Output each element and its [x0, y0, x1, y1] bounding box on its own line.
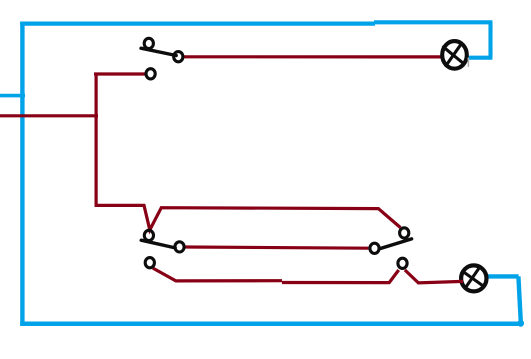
wire: red live stub at left edge — [0, 114, 98, 117]
switch S3 lever — [379, 239, 411, 249]
switch S3 terminal left — [370, 243, 379, 253]
wire: blue left vertical bus — [20, 22, 24, 326]
wire: blue bottom horizontal return — [20, 322, 520, 327]
wire: blue right vertical drop from lamp L2 — [518, 276, 520, 322]
wire: red from switch S3 to lamp L2 — [405, 270, 463, 283]
switch S3 terminal top — [400, 228, 409, 238]
lamp L1 cross stroke 1 — [446, 44, 461, 66]
wire: blue top horizontal (left part) — [20, 21, 375, 25]
lamp L1 cross stroke 2 — [443, 47, 464, 64]
wire: red traveller lower, S2 bottom terminal to mid-span — [153, 268, 282, 281]
switch S2 lever — [141, 240, 175, 248]
lamp L2 — [461, 265, 486, 291]
switch S1 terminal top — [144, 38, 153, 48]
artifact: gray tick below lamp L1 — [467, 58, 469, 67]
switch S1 lever — [141, 48, 176, 55]
wire: red vertical feed — [94, 73, 97, 207]
switch S3 (two-way switch, lower-right) — [370, 228, 412, 269]
lamp L1 body circle — [442, 41, 467, 69]
switch S1 (two-way switch, top) — [141, 38, 183, 79]
wire: blue right vertical drop to lamp L1 — [488, 22, 492, 58]
switch S2 terminal common top — [144, 230, 153, 240]
wire: blue neutral stub at left edge — [0, 94, 25, 98]
switch S3 terminal bottom — [398, 258, 407, 268]
wire: red from switch S1 terminal to lamp L1 — [184, 55, 441, 58]
lamp L1 — [442, 41, 467, 69]
switch S2 terminal bottom — [145, 258, 154, 268]
lamp L2 cross stroke 2 — [463, 272, 484, 287]
wire: blue top horizontal (right part) — [374, 20, 492, 24]
switch S1 terminal common — [146, 69, 155, 79]
switch S1 terminal right — [174, 52, 183, 62]
lamp L2 cross stroke 1 — [465, 267, 480, 288]
wire: red traveller lower, mid-span to S3 bottom terminal — [282, 270, 399, 283]
lamp L2 body circle — [461, 265, 486, 291]
wire: red traveller between S2 and S3 — [185, 247, 368, 248]
switch S2 (two-way switch, lower-left) — [141, 230, 184, 268]
switch S2 terminal right — [175, 242, 184, 252]
wire: red horizontal to switch S1 common — [94, 72, 146, 75]
junction: blue dot bottom-right corner — [517, 320, 524, 327]
wire: blue link from lamp L2 right terminal — [487, 274, 519, 278]
wire: blue link to lamp L1 right terminal — [467, 56, 492, 60]
wire: red branch with V-tap to switch S2 common and on to switch S3 — [95, 205, 401, 230]
